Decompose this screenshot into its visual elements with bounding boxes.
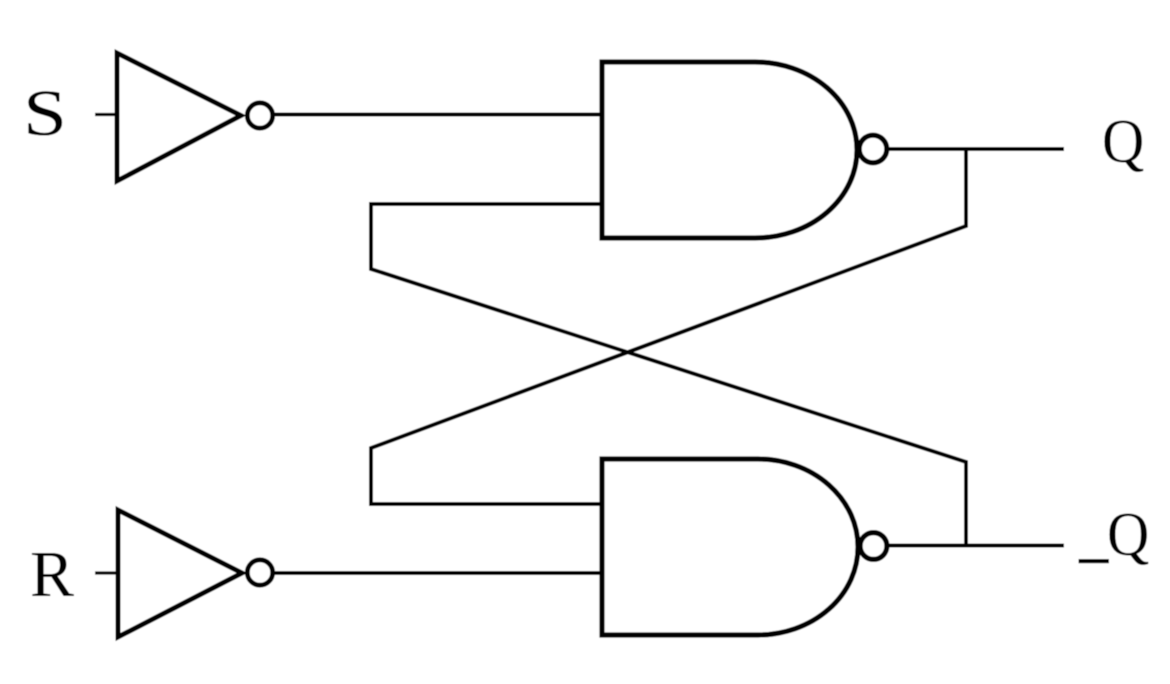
wire U4 output to Qbar [887, 544, 1064, 548]
wire U3 output to Q [887, 147, 1064, 151]
NAND U3 body [602, 62, 857, 238]
inverter U1 bubble [247, 103, 272, 128]
wire S input stub [95, 113, 119, 116]
inverter U1 triangle [117, 53, 241, 181]
NAND U4 body [602, 459, 858, 635]
wire R input stub [95, 571, 120, 574]
wire U2 output to NAND U4 input 2 [273, 571, 604, 575]
inverter U2 triangle [118, 510, 242, 637]
wire Q feedback: tap down, diagonal to lower-left, to NAND U4 input 1 [371, 149, 966, 504]
wire U1 output to NAND U3 input 1 [273, 113, 604, 117]
svg-text:S: S [23, 76, 67, 149]
svg-text:Q: Q [1107, 500, 1149, 569]
NAND U3 bubble [859, 135, 887, 163]
wire Qbar feedback: tap up, diagonal to upper-left, to NAND U3 input 2 [371, 204, 966, 546]
inverter U2 bubble [247, 560, 272, 585]
svg-text:Q: Q [1102, 107, 1144, 176]
NAND U4 bubble [860, 533, 887, 560]
node Qbar label [1079, 500, 1150, 569]
svg-text:R: R [30, 538, 74, 611]
